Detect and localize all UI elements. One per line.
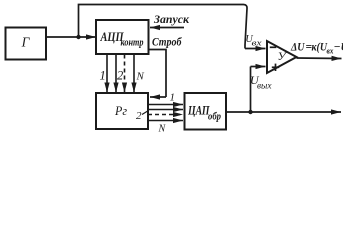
generator G box <box>6 28 47 60</box>
wire: DAC output Uvyh to the right edge <box>226 111 341 113</box>
leader line from label 2 <box>142 111 149 115</box>
wire: arrow into op-amp plus input <box>251 66 266 68</box>
wire: ADC to register bus dashed line <box>124 55 126 93</box>
svg-text:обр: обр <box>208 112 221 123</box>
svg-text:1: 1 <box>100 69 106 83</box>
svg-text:Строб: Строб <box>152 37 183 49</box>
wire: feedback from generator node up and across the top to Uvx <box>79 5 248 49</box>
node: junction dot on generator output <box>76 35 80 39</box>
ADC U1 box (ACP kontr) <box>96 20 149 54</box>
wire: Strob arrow into register <box>150 96 166 98</box>
svg-text:контр: контр <box>121 38 144 49</box>
register Rg box <box>96 93 148 129</box>
wire: ADC to register bus line N <box>133 55 135 93</box>
wire: arrow into op-amp minus input (Uvx) <box>245 48 266 50</box>
svg-text:Запуск: Запуск <box>153 14 190 26</box>
svg-text:−U: −U <box>334 42 343 54</box>
svg-text:Рг: Рг <box>114 103 127 118</box>
wire: Zapusk input arrow into ADC <box>150 27 184 29</box>
op-amp plus sign <box>272 66 279 68</box>
node: junction dot on DAC output <box>248 110 252 114</box>
svg-text:N: N <box>136 71 145 83</box>
svg-text:ЦАП: ЦАП <box>187 103 210 118</box>
wire: register to DAC bus line N <box>148 120 183 122</box>
svg-text:к(U: к(U <box>312 42 328 54</box>
wire: feedback from DAC output up to op-amp plus input <box>250 67 252 113</box>
svg-text:N: N <box>158 124 167 135</box>
op-amp U (comparator amplifier) <box>267 41 297 73</box>
wire: register to DAC bus line 1 <box>148 104 183 106</box>
svg-text:Г: Г <box>21 35 31 50</box>
svg-text:вых: вых <box>257 81 272 91</box>
svg-text:2: 2 <box>136 110 142 122</box>
svg-text:2: 2 <box>117 69 123 83</box>
wire: Strob from ADC down to register <box>149 50 167 98</box>
op-amp minus sign <box>270 46 277 48</box>
wire: register to DAC bus line 2 <box>148 109 183 111</box>
wire: ADC to register bus line 2 <box>115 55 117 93</box>
svg-text:1: 1 <box>170 92 176 104</box>
svg-text:ΔU: ΔU <box>290 42 305 54</box>
wire: op-amp output to the right edge <box>297 57 342 60</box>
wire: ADC to register bus line 1 <box>106 55 108 93</box>
svg-text:вх: вх <box>252 38 262 48</box>
wire: G output to ADC input <box>46 36 96 38</box>
wire: register to DAC bus dashed line <box>148 114 183 116</box>
DAC box (CAP obr) <box>185 93 227 130</box>
